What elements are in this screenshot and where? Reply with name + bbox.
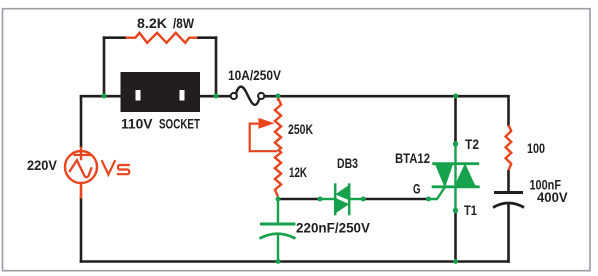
svg-text:T2: T2 (465, 136, 479, 152)
diac DB3: left bar (334, 183, 337, 215)
fuse F 10A/250V: wavy element (236, 87, 259, 105)
triac BTA12: center line (green) (454, 144, 456, 211)
junction dot (triac branch / top rail) (453, 94, 458, 99)
resistor R 8.2K/8W branch: left vertical wire (103, 36, 106, 96)
diac DB3: upper triangle (points left) (336, 185, 349, 199)
svg-text:G: G (413, 181, 421, 197)
wire: top rail fuse-to-right-corner segment (264, 95, 510, 98)
resistor 100 zigzag (506, 125, 512, 170)
terminal dot (diac right) (361, 197, 366, 202)
potentiometer 250K: top lead (277, 96, 279, 101)
svg-text:250K: 250K (288, 121, 313, 137)
resistor R 8.2K/8W branch: right vertical wire (215, 36, 218, 96)
voltage source Vs: sine wave (69, 160, 91, 177)
capacitor 220nF/250V: curved plate (260, 234, 296, 239)
diac DB3: left lead (320, 198, 335, 200)
wire: 8.2K branch top-right (197, 36, 218, 39)
svg-text:SOCKET: SOCKET (159, 116, 200, 132)
diac DB3: right lead (349, 198, 363, 200)
fuse F 10A/250V: left terminal circle (231, 93, 237, 99)
capacitor 220nF/250V: top lead (green) (277, 197, 279, 223)
resistor 12K zigzag (275, 150, 281, 197)
potentiometer 250K: wiper loop wire (250, 124, 278, 152)
junction dot (220nF cap / bottom rail) (276, 259, 281, 264)
wire: top rail socket-to-fuse segment (200, 95, 231, 98)
junction dot (triac branch / bottom rail) (453, 259, 458, 264)
triac BTA12: bottom bar (432, 185, 480, 188)
terminal dot (gate G) (426, 197, 431, 202)
svg-text:10A/250V: 10A/250V (228, 67, 282, 83)
wire: left vertical (lower part) (80, 198, 83, 263)
wire: gate row, 12K junction to diac (278, 198, 320, 201)
socket 110V (black body) (121, 72, 201, 112)
svg-text:12K: 12K (289, 164, 307, 180)
terminal dot (diac left) (318, 197, 323, 202)
wire: right vertical below 100nF cap (507, 202, 510, 263)
triac BTA12: right triangle (base on bottom bar) (455, 164, 476, 186)
svg-text:400V: 400V (537, 189, 568, 205)
potentiometer 250K: zigzag (275, 98, 281, 151)
capacitor 220nF/250V: flat plate (260, 223, 296, 226)
junction dot (12K / gate row / cap) (276, 197, 281, 202)
svg-text:220nF/250V: 220nF/250V (296, 220, 371, 236)
voltage source Vs: circle (65, 151, 97, 183)
wire: gate row, diac to gate dot (362, 198, 429, 201)
triac BTA12: top bar (432, 162, 479, 165)
wire: 8.2K branch top-left (103, 36, 127, 39)
triac BTA12: left triangle (base on top bar) (435, 164, 452, 187)
junction dot (8.2K right / top rail) (214, 94, 219, 99)
wire: top rail left segment (80, 95, 121, 98)
triac BTA12: gate lead (429, 187, 446, 199)
resistor 8.2K /8W zigzag (126, 33, 198, 43)
wire: left vertical (upper part) (80, 95, 83, 147)
junction dot (pot branch / top rail) (276, 94, 281, 99)
svg-text:8.2K: 8.2K (137, 15, 167, 31)
triac BTA12: T2 wire from top rail (454, 95, 457, 144)
capacitor 220nF/250V: bottom lead (277, 233, 279, 262)
svg-text:BTA12: BTA12 (395, 150, 430, 166)
svg-text:T1: T1 (464, 202, 477, 218)
svg-text:100: 100 (527, 140, 545, 156)
voltage source Vs: plus sign (73, 154, 90, 156)
junction dot (8.2K left / top rail) (102, 94, 107, 99)
label Vs (102, 160, 116, 174)
capacitor 100nF/400V: flat plate (494, 191, 523, 194)
svg-text:220V: 220V (27, 157, 58, 173)
socket slot left (136, 90, 141, 101)
wire: right vertical between 100 ohm and 100nF cap (507, 170, 510, 191)
triac BTA12: T1 wire to bottom rail (454, 211, 457, 263)
fuse F 10A/250V: right terminal circle (258, 93, 264, 99)
potentiometer 250K: wiper arrow (258, 118, 274, 129)
capacitor 100nF/400V: curved plate (493, 203, 524, 208)
svg-text:/8W: /8W (173, 15, 195, 31)
wire: right vertical top (to 100 ohm) (507, 95, 510, 126)
svg-text:DB3: DB3 (337, 155, 358, 171)
wire: bottom rail (80, 260, 510, 263)
terminal dot T2 (453, 141, 458, 146)
terminal dot T1 (453, 208, 458, 213)
socket slot right (180, 90, 185, 101)
voltage source Vs: bottom lead (80, 184, 83, 199)
diac DB3: right bar (348, 183, 351, 215)
diac DB3: lower triangle (points right) (335, 198, 348, 213)
svg-text:110V: 110V (121, 116, 153, 132)
